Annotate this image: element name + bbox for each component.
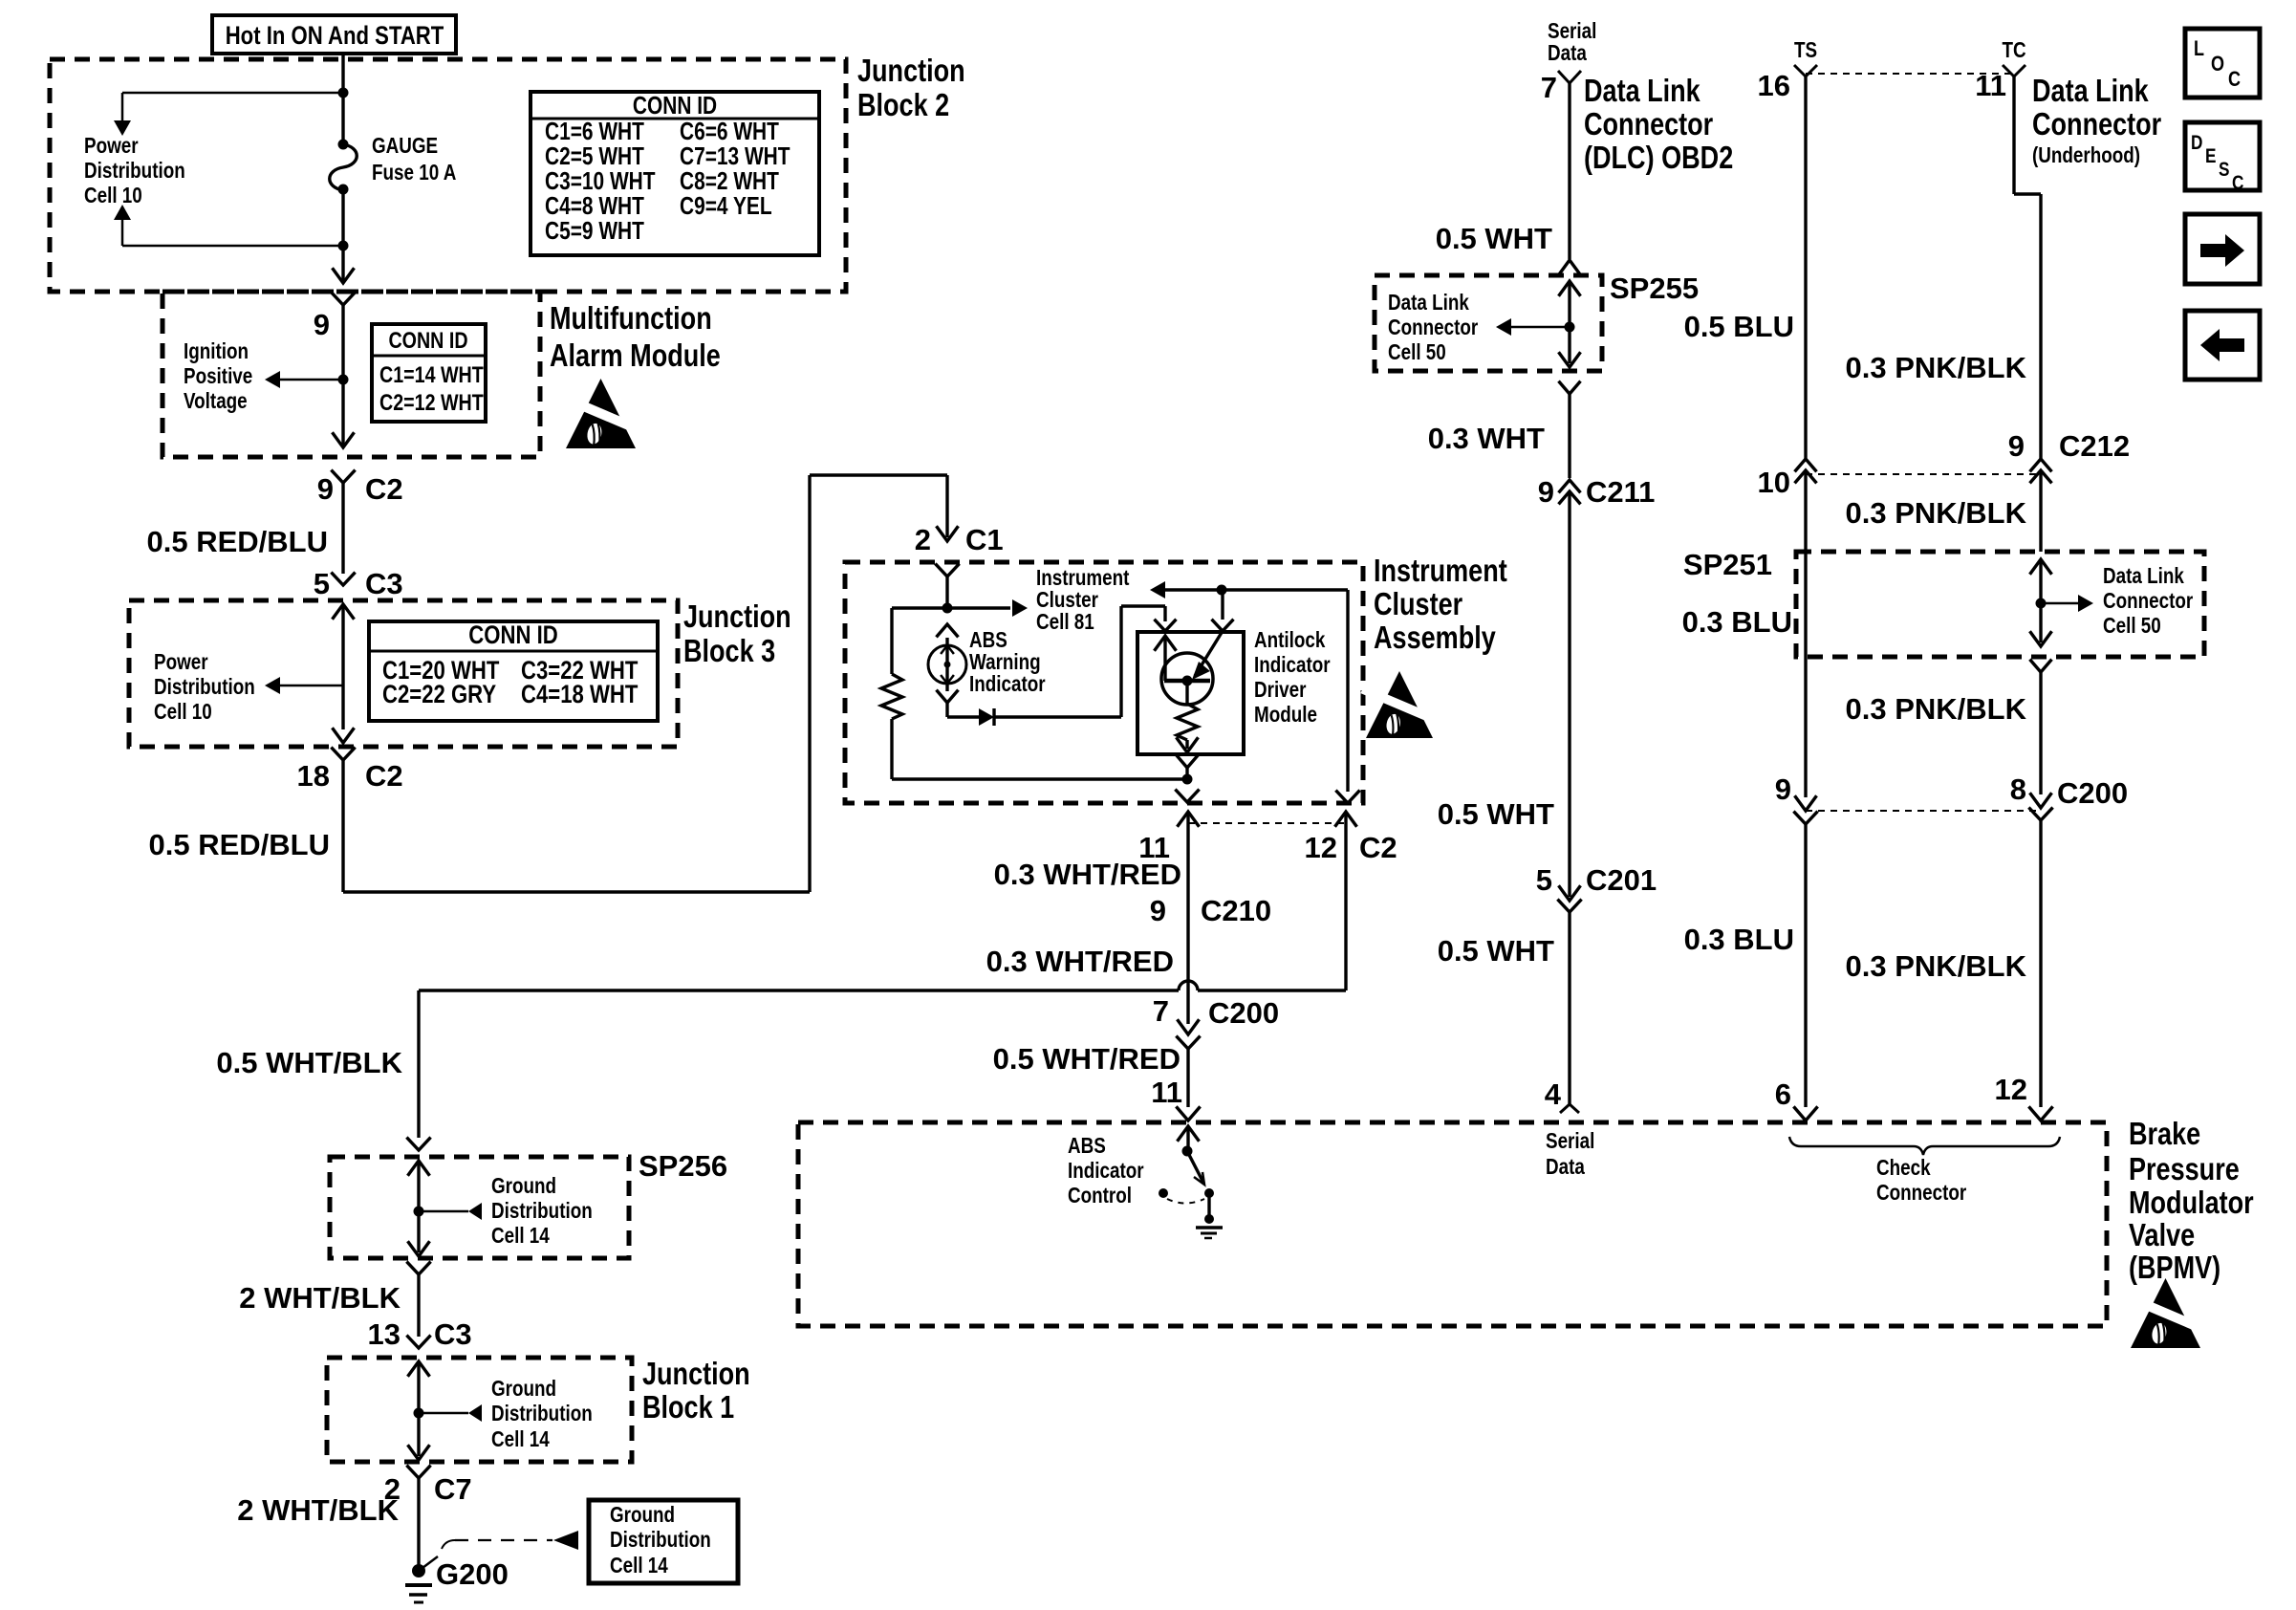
svg-text:Brake: Brake xyxy=(2129,1118,2200,1152)
svg-text:SP251: SP251 xyxy=(1683,548,1772,581)
svg-text:4: 4 xyxy=(1545,1077,1562,1111)
svg-text:Distribution: Distribution xyxy=(610,1528,711,1552)
svg-text:C3: C3 xyxy=(365,567,403,600)
svg-text:Data Link: Data Link xyxy=(1584,75,1700,109)
svg-text:Cell 50: Cell 50 xyxy=(2103,614,2161,638)
svg-text:C3=10 WHT: C3=10 WHT xyxy=(545,167,656,194)
svg-text:TS: TS xyxy=(1794,38,1817,62)
svg-text:Junction: Junction xyxy=(683,600,791,635)
svg-text:Ground: Ground xyxy=(491,1377,556,1401)
svg-text:0.3 PNK/BLK: 0.3 PNK/BLK xyxy=(1846,351,2027,384)
svg-text:Alarm Module: Alarm Module xyxy=(550,339,721,374)
svg-text:9: 9 xyxy=(1775,772,1791,806)
svg-text:Cluster: Cluster xyxy=(1374,588,1462,622)
svg-text:C1: C1 xyxy=(965,523,1004,556)
svg-text:E: E xyxy=(2205,146,2217,168)
svg-text:CONN ID: CONN ID xyxy=(468,621,557,650)
svg-text:0.3 BLU: 0.3 BLU xyxy=(1682,605,1792,639)
svg-text:S: S xyxy=(2219,160,2230,182)
svg-text:Cell 14: Cell 14 xyxy=(610,1554,668,1577)
svg-text:Data: Data xyxy=(1546,1155,1585,1179)
svg-text:Connector: Connector xyxy=(2032,108,2161,142)
svg-text:Ignition: Ignition xyxy=(184,339,249,363)
svg-text:2 WHT/BLK: 2 WHT/BLK xyxy=(239,1281,401,1315)
svg-text:Cell 10: Cell 10 xyxy=(154,700,212,724)
svg-text:0.3 PNK/BLK: 0.3 PNK/BLK xyxy=(1846,949,2027,983)
svg-text:(Underhood): (Underhood) xyxy=(2032,143,2140,167)
svg-text:C2=12 WHT: C2=12 WHT xyxy=(379,389,484,415)
svg-text:Control: Control xyxy=(1068,1184,1132,1207)
svg-text:Cell 81: Cell 81 xyxy=(1036,610,1094,634)
svg-text:2 WHT/BLK: 2 WHT/BLK xyxy=(237,1493,399,1527)
svg-text:Voltage: Voltage xyxy=(184,389,248,413)
svg-text:0.5 WHT: 0.5 WHT xyxy=(1438,934,1554,968)
svg-text:Fuse 10 A: Fuse 10 A xyxy=(372,161,456,185)
svg-text:Connector: Connector xyxy=(1388,315,1478,339)
svg-text:SP256: SP256 xyxy=(639,1149,727,1183)
svg-text:0.3 PNK/BLK: 0.3 PNK/BLK xyxy=(1846,692,2027,726)
svg-text:Ground: Ground xyxy=(610,1503,675,1527)
svg-text:Serial: Serial xyxy=(1546,1129,1594,1153)
svg-text:Data: Data xyxy=(1548,41,1587,65)
svg-text:0.3 WHT/RED: 0.3 WHT/RED xyxy=(986,945,1174,978)
svg-text:Data Link: Data Link xyxy=(2103,564,2184,588)
svg-text:Assembly: Assembly xyxy=(1374,621,1496,656)
svg-text:Positive: Positive xyxy=(184,364,252,388)
svg-text:C: C xyxy=(2232,173,2244,195)
svg-text:D: D xyxy=(2191,133,2203,155)
svg-text:C3: C3 xyxy=(434,1317,472,1351)
svg-text:Cell 10: Cell 10 xyxy=(84,184,142,207)
svg-text:C210: C210 xyxy=(1201,894,1271,927)
svg-text:C212: C212 xyxy=(2059,429,2130,463)
svg-text:C7: C7 xyxy=(434,1472,472,1506)
svg-text:Cell 14: Cell 14 xyxy=(491,1427,550,1451)
svg-text:0.5 WHT: 0.5 WHT xyxy=(1436,222,1552,255)
svg-text:Power: Power xyxy=(84,134,139,158)
svg-text:C7=13 WHT: C7=13 WHT xyxy=(680,142,791,169)
svg-text:C2=22 GRY: C2=22 GRY xyxy=(382,681,497,709)
svg-text:C2: C2 xyxy=(365,759,403,793)
svg-text:Data Link: Data Link xyxy=(1388,291,1469,315)
svg-text:12: 12 xyxy=(1995,1073,2027,1106)
svg-text:9: 9 xyxy=(1150,894,1166,927)
svg-text:0.5 WHT/RED: 0.5 WHT/RED xyxy=(993,1042,1180,1076)
svg-text:7: 7 xyxy=(1541,71,1557,104)
svg-text:Valve: Valve xyxy=(2129,1219,2195,1253)
svg-text:C5=9 WHT: C5=9 WHT xyxy=(545,217,644,244)
svg-text:L: L xyxy=(2194,37,2204,60)
svg-text:C200: C200 xyxy=(1208,996,1279,1030)
svg-text:11: 11 xyxy=(1151,1076,1182,1109)
svg-text:0.3 WHT: 0.3 WHT xyxy=(1428,422,1545,455)
svg-text:Multifunction: Multifunction xyxy=(550,302,712,337)
svg-text:Data Link: Data Link xyxy=(2032,75,2149,109)
svg-text:Instrument: Instrument xyxy=(1374,555,1507,589)
svg-text:10: 10 xyxy=(1758,466,1790,499)
svg-text:Connector: Connector xyxy=(1584,108,1713,142)
svg-text:Ground: Ground xyxy=(491,1174,556,1198)
svg-text:CONN ID: CONN ID xyxy=(388,327,467,353)
svg-text:C211: C211 xyxy=(1586,475,1655,509)
svg-text:Indicator: Indicator xyxy=(969,672,1046,696)
svg-text:Connector: Connector xyxy=(2103,589,2193,613)
svg-text:9: 9 xyxy=(1538,475,1554,509)
svg-text:ABS: ABS xyxy=(1068,1134,1106,1158)
svg-text:9: 9 xyxy=(2008,429,2025,463)
svg-text:Serial: Serial xyxy=(1548,19,1596,43)
svg-text:8: 8 xyxy=(2010,772,2026,806)
svg-text:C2: C2 xyxy=(365,472,403,506)
svg-text:Hot In ON And START: Hot In ON And START xyxy=(226,22,444,51)
svg-text:Block 3: Block 3 xyxy=(683,635,775,669)
svg-text:0.5 BLU: 0.5 BLU xyxy=(1684,310,1794,343)
svg-text:0.5 WHT/BLK: 0.5 WHT/BLK xyxy=(216,1046,402,1079)
svg-text:Cell 14: Cell 14 xyxy=(491,1224,550,1248)
svg-text:13: 13 xyxy=(368,1317,401,1351)
svg-text:5: 5 xyxy=(1536,863,1552,897)
svg-text:Block 2: Block 2 xyxy=(857,89,949,123)
svg-text:Module: Module xyxy=(1254,703,1317,727)
svg-text:Antilock: Antilock xyxy=(1254,628,1326,652)
svg-text:Modulator: Modulator xyxy=(2129,1186,2254,1221)
svg-text:C4=8 WHT: C4=8 WHT xyxy=(545,192,644,219)
svg-text:Indicator: Indicator xyxy=(1254,653,1331,677)
svg-text:Cluster: Cluster xyxy=(1036,588,1098,612)
svg-text:11: 11 xyxy=(1975,69,2006,102)
svg-text:Distribution: Distribution xyxy=(84,159,185,183)
svg-text:Block 1: Block 1 xyxy=(642,1391,734,1425)
svg-text:(BPMV): (BPMV) xyxy=(2129,1251,2220,1286)
svg-text:Power: Power xyxy=(154,650,208,674)
svg-text:7: 7 xyxy=(1153,994,1169,1028)
svg-text:CONN ID: CONN ID xyxy=(633,92,717,119)
svg-text:9: 9 xyxy=(317,472,334,506)
svg-text:C: C xyxy=(2228,68,2241,91)
svg-text:GAUGE: GAUGE xyxy=(372,134,438,158)
svg-text:Junction: Junction xyxy=(642,1358,750,1392)
svg-text:12: 12 xyxy=(1305,831,1337,864)
svg-text:C6=6 WHT: C6=6 WHT xyxy=(680,118,779,144)
svg-text:0.5 WHT: 0.5 WHT xyxy=(1438,797,1554,831)
svg-text:(DLC) OBD2: (DLC) OBD2 xyxy=(1584,141,1733,176)
svg-text:Driver: Driver xyxy=(1254,678,1306,702)
svg-text:0.3 BLU: 0.3 BLU xyxy=(1684,923,1794,956)
svg-text:Connector: Connector xyxy=(1876,1181,1966,1205)
svg-text:TC: TC xyxy=(2002,38,2025,62)
svg-text:G200: G200 xyxy=(436,1557,509,1591)
svg-text:SP255: SP255 xyxy=(1610,272,1699,305)
svg-text:O: O xyxy=(2211,53,2224,76)
svg-text:0.3 WHT/RED: 0.3 WHT/RED xyxy=(994,858,1181,891)
svg-text:Instrument: Instrument xyxy=(1036,566,1129,590)
svg-text:0.5 RED/BLU: 0.5 RED/BLU xyxy=(149,828,330,861)
svg-text:C1=6 WHT: C1=6 WHT xyxy=(545,118,644,144)
svg-text:C2=5 WHT: C2=5 WHT xyxy=(545,142,644,169)
svg-text:C8=2 WHT: C8=2 WHT xyxy=(680,167,779,194)
svg-text:C9=4 YEL: C9=4 YEL xyxy=(680,192,772,219)
svg-text:Distribution: Distribution xyxy=(491,1199,593,1223)
svg-text:16: 16 xyxy=(1758,69,1790,102)
svg-text:Distribution: Distribution xyxy=(491,1402,593,1425)
svg-text:2: 2 xyxy=(915,523,931,556)
svg-text:6: 6 xyxy=(1775,1077,1791,1111)
svg-text:Indicator: Indicator xyxy=(1068,1159,1144,1183)
svg-text:5: 5 xyxy=(314,567,330,600)
svg-text:Cell 50: Cell 50 xyxy=(1388,340,1446,364)
svg-text:Check: Check xyxy=(1876,1156,1931,1180)
svg-text:0.5 RED/BLU: 0.5 RED/BLU xyxy=(147,525,328,558)
svg-text:Distribution: Distribution xyxy=(154,675,255,699)
svg-text:9: 9 xyxy=(314,308,330,341)
svg-text:C2: C2 xyxy=(1359,831,1397,864)
svg-text:0.3 PNK/BLK: 0.3 PNK/BLK xyxy=(1846,496,2027,530)
svg-text:Pressure: Pressure xyxy=(2129,1153,2240,1187)
svg-text:Junction: Junction xyxy=(857,54,965,89)
svg-text:ABS: ABS xyxy=(969,628,1007,652)
svg-text:Warning: Warning xyxy=(969,650,1041,674)
svg-text:C1=14 WHT: C1=14 WHT xyxy=(379,361,484,387)
svg-text:18: 18 xyxy=(297,759,330,793)
svg-text:C4=18 WHT: C4=18 WHT xyxy=(521,681,638,709)
svg-text:C200: C200 xyxy=(2057,776,2128,810)
svg-text:C201: C201 xyxy=(1586,863,1657,897)
